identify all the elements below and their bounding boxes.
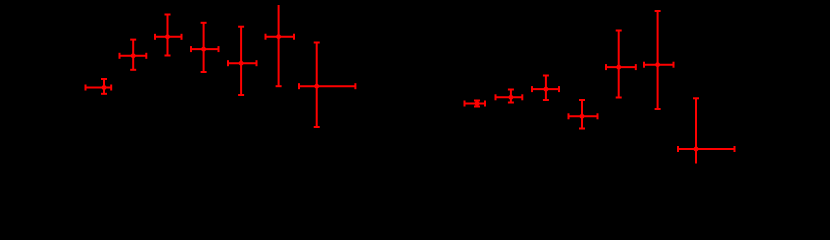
data point R7: horizontal error bar xyxy=(678,98,735,163)
data point L1: horizontal error bar xyxy=(86,79,112,94)
data point R1: horizontal error bar xyxy=(465,101,486,107)
data point L4: horizontal error bar xyxy=(191,23,219,72)
data point R6: horizontal error bar xyxy=(644,11,674,109)
data point R4: horizontal error bar xyxy=(569,100,598,129)
data point L6: horizontal error bar xyxy=(266,5,295,86)
data point R3: horizontal error bar xyxy=(532,76,559,101)
data point L7: horizontal error bar xyxy=(299,43,355,128)
data point L2: horizontal error bar xyxy=(120,40,147,70)
data point L5: horizontal error bar xyxy=(228,27,257,95)
data point R5: horizontal error bar xyxy=(606,31,636,98)
data point R2: horizontal error bar xyxy=(496,90,523,103)
data point L3: horizontal error bar xyxy=(155,15,182,56)
